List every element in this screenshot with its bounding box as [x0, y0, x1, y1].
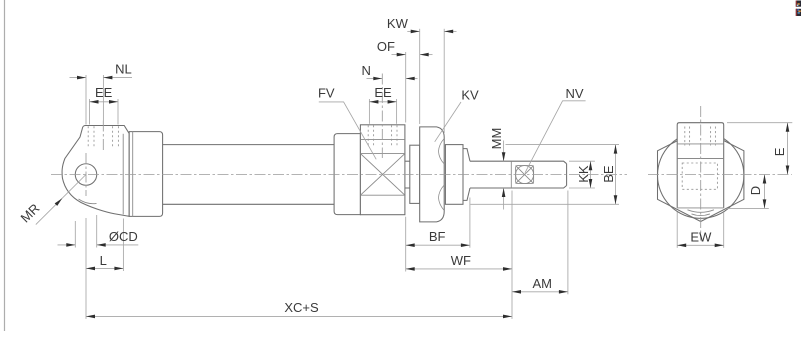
- head block line1: [360, 139, 405, 141]
- front adapter: [334, 134, 360, 215]
- svg-text:FV: FV: [318, 86, 335, 101]
- rod bushing: [445, 145, 463, 205]
- head block line2: [360, 153, 405, 155]
- corner icon fragment: [796, 1, 801, 17]
- head block port axis: [381, 74, 383, 159]
- clevis port dashed: [87, 126, 89, 147]
- dimension MR leader: [36, 175, 86, 225]
- svg-text:EW: EW: [690, 230, 712, 245]
- barrel tube top line: [163, 144, 335, 146]
- dimension EW: [676, 212, 678, 248]
- svg-text:EE: EE: [374, 85, 392, 100]
- dimension KK: [569, 160, 595, 162]
- dimension AM: [567, 191, 569, 295]
- bushing step bottom: [463, 188, 470, 200]
- svg-text:MM: MM: [489, 128, 504, 150]
- chamfer arc bottom 1: [688, 210, 714, 213]
- dimension EE middle: [368, 99, 370, 124]
- dimension BE: [506, 144, 620, 146]
- end view horizontal centerline: [648, 174, 792, 176]
- dimension L: [85, 218, 87, 319]
- barrel tube bottom line: [163, 203, 335, 205]
- svg-text:ØCD: ØCD: [109, 229, 138, 244]
- head block: [360, 125, 405, 215]
- svg-text:EE: EE: [95, 85, 113, 100]
- bushing step top: [463, 149, 470, 162]
- dimension D: [727, 207, 769, 209]
- dimension MM: [503, 141, 505, 162]
- dimension BF: [405, 217, 407, 272]
- dimension N: [367, 78, 383, 80]
- clevis boss arc: [79, 199, 97, 204]
- fork block line2: [677, 158, 724, 160]
- ring spacer: [410, 145, 420, 203]
- head block X diagonal 2: [360, 154, 405, 196]
- dimension OF: [405, 52, 407, 123]
- svg-text:NV: NV: [565, 86, 583, 101]
- nut facet lower: [439, 185, 445, 210]
- clevis inner slot line: [122, 134, 124, 215]
- chamfer arc bottom 2: [692, 214, 710, 216]
- rod thread step: [510, 161, 512, 188]
- dimension KW: [419, 29, 421, 124]
- clevis port axis: [102, 121, 104, 153]
- end view ports dashed: [684, 127, 686, 146]
- head block line3: [360, 194, 405, 196]
- clevis eye vertical centerline: [85, 153, 87, 196]
- dimension WF: [511, 191, 513, 319]
- dimension EE left: [89, 99, 91, 125]
- dimension CD: [74, 221, 76, 248]
- rear cap joint line: [132, 132, 134, 217]
- svg-text:XC+S: XC+S: [284, 300, 319, 315]
- head block X diagonal 1: [360, 154, 405, 196]
- clevis eye hole CD: [75, 164, 97, 186]
- svg-text:D: D: [748, 186, 763, 195]
- dimension E: [727, 122, 792, 124]
- rod segment at block face: [405, 160, 410, 162]
- svg-text:E: E: [772, 147, 787, 156]
- nut facet upper: [439, 139, 445, 164]
- fork block bottom edge: [677, 207, 724, 209]
- svg-text:KV: KV: [461, 87, 479, 102]
- rod end face: [566, 164, 568, 186]
- svg-text:NL: NL: [115, 62, 132, 77]
- svg-text:BF: BF: [429, 229, 446, 244]
- svg-text:OF: OF: [377, 39, 395, 54]
- rear cap: [129, 132, 162, 217]
- head block ports dashed: [367, 125, 369, 147]
- end view hexagon: [658, 129, 744, 222]
- svg-text:N: N: [362, 63, 371, 78]
- nut KV: [420, 127, 445, 222]
- end view fork block: [677, 123, 724, 208]
- hidden eye hole rect: [682, 163, 717, 189]
- svg-text:BE: BE: [601, 165, 616, 183]
- piston rod bottom line: [470, 186, 567, 189]
- svg-text:KW: KW: [387, 16, 409, 31]
- wrench flats symbol NV: [516, 166, 534, 184]
- svg-text:L: L: [100, 253, 107, 268]
- svg-text:KK: KK: [576, 165, 591, 183]
- side view centerline: [51, 174, 627, 176]
- dimension NL: [85, 75, 87, 125]
- piston rod top line: [470, 161, 567, 164]
- svg-text:WF: WF: [451, 253, 471, 268]
- end view vertical centerline: [700, 106, 702, 241]
- fork block line1: [677, 143, 724, 145]
- page left border: [4, 0, 6, 331]
- end view circle: [658, 132, 744, 218]
- svg-text:AM: AM: [532, 276, 552, 291]
- dimension XC+S: [86, 315, 512, 317]
- clevis body outline: [62, 126, 129, 217]
